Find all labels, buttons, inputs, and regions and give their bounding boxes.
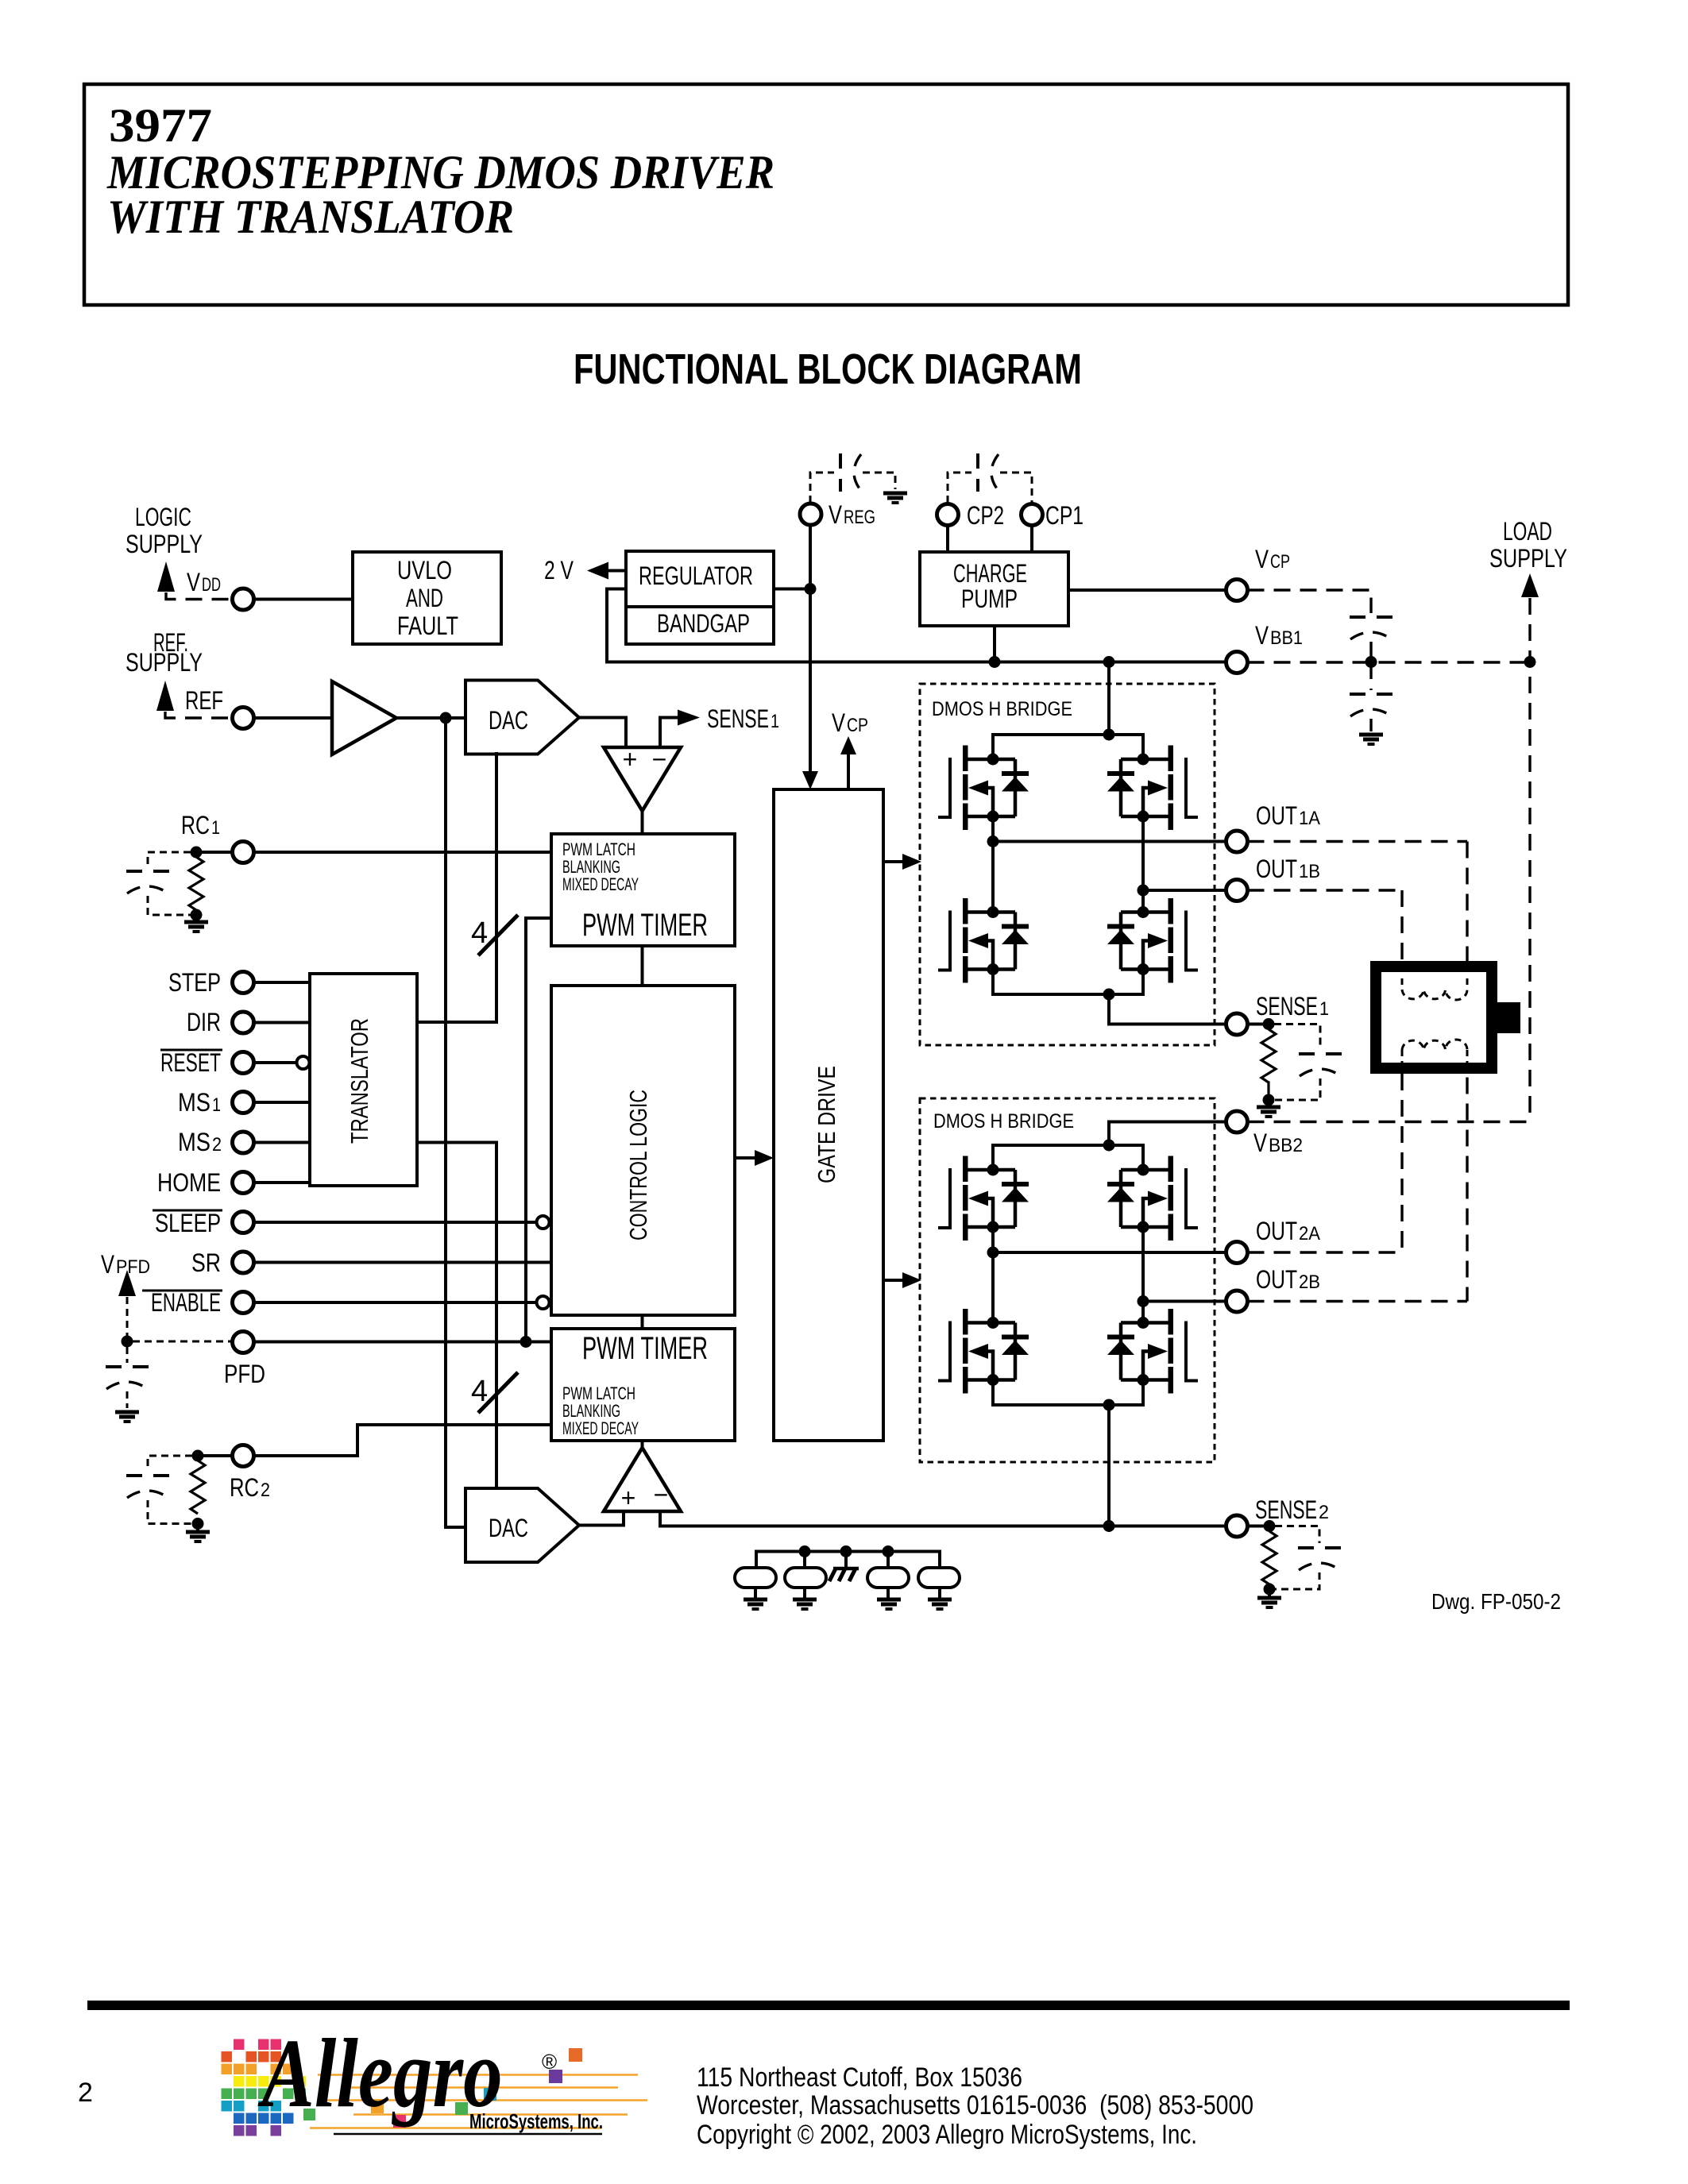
translator output bus 1 xyxy=(417,754,496,1022)
svg-text:PFD: PFD xyxy=(224,1360,265,1388)
wire dashed load supply vertical xyxy=(1528,598,1531,1122)
resistor R-SENSE1 xyxy=(1261,1029,1276,1082)
wire ENABLE to control logic xyxy=(254,1301,536,1304)
svg-text:V: V xyxy=(1253,1129,1268,1157)
svg-text:MS: MS xyxy=(178,1128,211,1156)
wire gate drive to bridge 1 arrow xyxy=(883,860,903,863)
capacitor C-SENSE1 xyxy=(1299,1054,1342,1076)
svg-text:UVLO: UVLO xyxy=(397,556,452,585)
svg-text:Worcester, Massachusetts 01615: Worcester, Massachusetts 01615-0036 (508… xyxy=(697,2090,1253,2120)
node VBB1 load junction xyxy=(1524,656,1536,668)
wire OUT1A rail xyxy=(993,840,1226,843)
svg-text:LOGIC: LOGIC xyxy=(135,503,191,531)
wire VDD to UVLO xyxy=(254,598,353,601)
capacitor pad 3 xyxy=(867,1568,909,1588)
svg-text:GATE DRIVE: GATE DRIVE xyxy=(813,1066,840,1183)
terminal VDD xyxy=(233,588,254,610)
wire charge pump bottom to VBB rail xyxy=(993,626,996,662)
svg-text:2: 2 xyxy=(1319,1502,1329,1523)
motor M1 stepper xyxy=(1376,967,1492,1068)
wire dashed REF supply xyxy=(165,712,233,718)
terminal RC2 xyxy=(233,1445,254,1467)
wire VBB tap into bridge 1 xyxy=(1107,662,1111,735)
svg-text:PWM TIMER: PWM TIMER xyxy=(582,1331,708,1366)
ground VREG cap xyxy=(883,493,907,503)
ground RC1 xyxy=(195,915,198,920)
svg-text:MIXED DECAY: MIXED DECAY xyxy=(562,874,639,894)
block DMOS H BRIDGE 1 dashed box xyxy=(920,684,1215,1045)
wire comparator output to PWM timer 1 xyxy=(641,811,644,834)
terminal VREG xyxy=(800,504,821,525)
svg-text:RC: RC xyxy=(181,811,210,839)
sense2 RC network xyxy=(1264,1520,1276,1532)
wire PWM timer 1 to control logic xyxy=(641,946,644,986)
wire OUT2A rail xyxy=(993,1251,1226,1254)
svg-text:RESET: RESET xyxy=(160,1048,221,1077)
svg-text:DAC: DAC xyxy=(489,706,528,735)
wire bridge1 bottom rail xyxy=(993,993,1143,996)
svg-text:PUMP: PUMP xyxy=(961,585,1018,613)
wire OUT2B rail xyxy=(1143,1300,1226,1303)
svg-text:V: V xyxy=(832,708,846,737)
terminal VCP xyxy=(1226,580,1248,601)
svg-text:BANDGAP: BANDGAP xyxy=(657,609,750,638)
wire charge pump to VCP xyxy=(1068,588,1226,592)
wire RC1 to PWM timer 1 xyxy=(254,851,552,854)
svg-text:CONTROL LOGIC: CONTROL LOGIC xyxy=(624,1090,652,1241)
svg-text:MIXED DECAY: MIXED DECAY xyxy=(562,1418,639,1438)
wire DAC1 output to comparator xyxy=(579,718,626,746)
svg-text:PWM TIMER: PWM TIMER xyxy=(582,908,708,943)
svg-text:MS: MS xyxy=(178,1088,211,1117)
wire HOME xyxy=(254,1181,311,1184)
node regulator-VREG junction xyxy=(805,583,817,595)
wire bridge1 right leg xyxy=(1141,816,1145,913)
svg-text:SENSE: SENSE xyxy=(707,704,769,733)
translator output bus 2 xyxy=(417,1143,496,1488)
logo MicroSystems Inc xyxy=(334,2133,602,2136)
wire dashed CP pump cap xyxy=(948,473,971,503)
motor winding phase 2 xyxy=(1402,1040,1467,1050)
wire OUT1B rail xyxy=(1143,889,1226,892)
terminal OUT1A xyxy=(1226,831,1248,852)
svg-text:Allegro: Allegro xyxy=(257,2020,502,2128)
wire regulator output to VREG xyxy=(774,588,810,591)
wire amp output to DAC1 xyxy=(396,716,465,720)
svg-text:SLEEP: SLEEP xyxy=(155,1209,221,1237)
op-amp A1 reference buffer xyxy=(332,681,396,754)
transistor Q8 bridge2 lower-right xyxy=(1107,1309,1198,1394)
node VPFD junction xyxy=(122,1336,133,1348)
terminal REF xyxy=(233,708,254,729)
ground SENSE2 xyxy=(1268,1589,1271,1595)
svg-text:LOAD: LOAD xyxy=(1503,517,1552,546)
wire PFD to PWM timer 2 xyxy=(254,1341,552,1344)
svg-text:1: 1 xyxy=(211,817,220,839)
terminal PFD xyxy=(233,1332,254,1353)
terminal VBB2 xyxy=(1226,1111,1248,1133)
transistor Q3 bridge1 lower-left xyxy=(938,898,1029,983)
wire dashed VREG external cap xyxy=(810,473,834,503)
wire dashed VCP to cap xyxy=(1248,590,1372,613)
wire bridge2 lower sources xyxy=(991,1380,995,1406)
wire bridge1 left leg xyxy=(991,816,995,913)
svg-text:OUT: OUT xyxy=(1256,1217,1297,1245)
block DMOS H BRIDGE 2 dashed box xyxy=(920,1098,1215,1462)
transistor Q5 bridge2 upper-left xyxy=(938,1156,1029,1241)
logic supply arrow xyxy=(157,561,175,592)
svg-text:+: + xyxy=(623,745,638,774)
svg-text:V: V xyxy=(1255,545,1269,573)
svg-text:SENSE: SENSE xyxy=(1256,992,1318,1021)
logo scattered squares xyxy=(569,2048,582,2062)
wire dashed OUT2B to motor xyxy=(1248,1300,1468,1302)
svg-text:2 V: 2 V xyxy=(544,556,574,585)
wire bridge1 lower sources xyxy=(991,970,995,995)
wire CP2 lead xyxy=(946,526,949,553)
node RESET inverter bubble xyxy=(297,1056,310,1069)
svg-text:ENABLE: ENABLE xyxy=(151,1288,221,1317)
wire comparator 2 minus input from SENSE2 rail xyxy=(660,1511,1226,1526)
svg-text:OUT: OUT xyxy=(1256,855,1297,883)
svg-text:CHARGE: CHARGE xyxy=(953,559,1027,588)
motor winding phase 1 xyxy=(1401,978,1404,990)
ground SENSE1 xyxy=(1267,1100,1270,1104)
wire bridge2 sense lead xyxy=(1107,1405,1111,1526)
resistor R2 xyxy=(191,1461,205,1514)
capacitor C-VCP xyxy=(1350,617,1393,639)
wire bridge1 sense lead xyxy=(1109,994,1226,1024)
node VBB1 cap junction xyxy=(1365,656,1377,668)
comparator CMP1 xyxy=(604,747,681,811)
node RC2 junction xyxy=(192,1450,204,1462)
wire SR to control logic xyxy=(254,1261,552,1264)
svg-text:AND: AND xyxy=(406,584,443,612)
wire bandgap feedback loop to VBB rail xyxy=(607,589,626,662)
dac U3 DAC2 pentagon xyxy=(465,1488,579,1562)
wire bridge2 bottom rail xyxy=(993,1403,1143,1406)
svg-text:HOME: HOME xyxy=(157,1168,221,1197)
block PWM TIMER 2 xyxy=(551,1329,735,1441)
svg-text:DAC: DAC xyxy=(489,1514,528,1542)
terminal VBB1 xyxy=(1226,652,1248,673)
block BANDGAP xyxy=(626,607,774,644)
wire dashed VPFD xyxy=(126,1297,129,1341)
svg-text:V: V xyxy=(187,568,201,596)
terminal CP2 xyxy=(937,504,959,526)
wire VREG vertical into gate drive xyxy=(809,525,812,774)
svg-text:DIR: DIR xyxy=(187,1008,221,1036)
svg-text:2A: 2A xyxy=(1299,1223,1320,1244)
svg-text:1B: 1B xyxy=(1299,861,1320,882)
wire dashed sense2 cap xyxy=(1275,1526,1319,1544)
node SENSE1 feed arrow xyxy=(678,710,700,726)
svg-text:1: 1 xyxy=(771,711,779,732)
dac U2 DAC pentagon xyxy=(465,681,579,754)
wire dashed OUT2A to motor xyxy=(1248,1251,1403,1253)
svg-text:REF: REF xyxy=(185,686,223,715)
node RC1 junction xyxy=(191,847,203,859)
terminal OUT2A xyxy=(1226,1242,1248,1264)
footer rule xyxy=(87,2001,1570,2010)
svg-text:3977: 3977 xyxy=(109,99,212,152)
block CHARGE PUMP xyxy=(920,552,1068,626)
svg-text:PFD: PFD xyxy=(116,1256,150,1278)
wire main VBB1 rail xyxy=(607,661,1226,664)
svg-text:Dwg. FP-050-2: Dwg. FP-050-2 xyxy=(1431,1589,1561,1614)
svg-text:1: 1 xyxy=(1319,998,1329,1020)
wire dashed OUT1A to motor xyxy=(1248,840,1468,843)
svg-text:DMOS H BRIDGE: DMOS H BRIDGE xyxy=(933,1110,1074,1133)
svg-text:BB2: BB2 xyxy=(1269,1135,1303,1156)
svg-text:V: V xyxy=(1255,621,1269,650)
block REGULATOR xyxy=(626,551,774,607)
svg-text:Copyright © 2002, 2003 Allegro: Copyright © 2002, 2003 Allegro MicroSyst… xyxy=(697,2120,1197,2150)
node RC1 bottom junction xyxy=(191,909,203,921)
svg-text:4: 4 xyxy=(471,1375,488,1408)
svg-text:SR: SR xyxy=(191,1248,221,1277)
capacitor C2 xyxy=(126,1476,169,1498)
wire bridge2 drain leads xyxy=(991,1145,995,1170)
svg-text:TRANSLATOR: TRANSLATOR xyxy=(346,1018,373,1144)
svg-text:OUT: OUT xyxy=(1256,801,1297,830)
wire bridge2 right leg xyxy=(1141,1227,1145,1323)
wire control logic to gate drive arrow xyxy=(735,1156,756,1160)
svg-text:REGULATOR: REGULATOR xyxy=(639,561,753,590)
svg-text:SUPPLY: SUPPLY xyxy=(1489,544,1567,573)
svg-text:−: − xyxy=(652,745,667,774)
wire DIR xyxy=(254,1021,311,1024)
block PWM TIMER 1 xyxy=(551,834,735,946)
transistor Q2 bridge1 upper-right xyxy=(1107,746,1198,831)
load supply arrow xyxy=(1521,573,1539,597)
svg-text:4: 4 xyxy=(471,916,488,950)
node SLEEP inverter bubble xyxy=(537,1216,550,1229)
svg-text:SUPPLY: SUPPLY xyxy=(126,648,203,677)
wire dashed RC2 cap branch xyxy=(148,1456,192,1471)
capacitor C-VREG xyxy=(840,453,861,492)
wire STEP xyxy=(254,981,311,984)
wire RC2 to PWM timer 2 xyxy=(254,1425,552,1456)
block GATE DRIVE xyxy=(774,789,883,1441)
svg-text:DMOS H BRIDGE: DMOS H BRIDGE xyxy=(932,698,1072,720)
ground VPFD cap xyxy=(115,1412,139,1422)
wire MS2 xyxy=(254,1141,311,1144)
svg-text:−: − xyxy=(654,1480,669,1509)
node PFD junction to PWM timers xyxy=(520,1336,532,1348)
wire RESET xyxy=(254,1061,297,1064)
svg-text:CP2: CP2 xyxy=(967,501,1004,530)
wire dashed VDD supply xyxy=(166,592,232,600)
svg-text:2: 2 xyxy=(261,1480,270,1501)
svg-text:V: V xyxy=(829,500,843,529)
svg-text:CP: CP xyxy=(847,715,868,736)
node amp output junction xyxy=(440,712,452,724)
capacitor C-SENSE2 xyxy=(1298,1548,1341,1570)
Allegro MicroSystems logo xyxy=(222,2039,307,2136)
wire dashed sense1 cap xyxy=(1274,1024,1320,1050)
resistor R-SENSE2 xyxy=(1262,1531,1277,1584)
terminal CP1 xyxy=(1022,504,1043,526)
svg-text:1: 1 xyxy=(212,1094,221,1116)
wire SLEEP to control logic xyxy=(254,1221,536,1224)
wire MS1 xyxy=(254,1101,311,1104)
wire gate drive to bridge 2 arrow xyxy=(883,1279,903,1282)
svg-text:STEP: STEP xyxy=(168,968,221,997)
wire bridge 2 top rail and VBB2 tap xyxy=(1109,1122,1226,1146)
resistor R1 xyxy=(189,857,203,910)
wire control logic to PWM timer 2 xyxy=(641,1315,644,1329)
svg-text:BB1: BB1 xyxy=(1270,627,1303,649)
node RC2 bottom junction xyxy=(192,1518,204,1530)
wire bridge 1 top rail xyxy=(993,733,1143,736)
capacitor pad 4 xyxy=(918,1568,960,1588)
wire dashed RC1 cap branch xyxy=(148,852,191,866)
transistor Q4 bridge1 lower-right xyxy=(1107,898,1198,983)
ground VBB1 cap xyxy=(1359,735,1383,744)
terminal OUT1B xyxy=(1226,880,1248,901)
chassis ground hatch xyxy=(833,1567,859,1571)
wire CP1 lead xyxy=(1030,526,1033,553)
svg-text:REG: REG xyxy=(844,507,875,528)
terminal OUT2B xyxy=(1226,1291,1248,1312)
comparator CMP2 xyxy=(604,1448,681,1511)
logo orange speed lines xyxy=(310,2075,647,2128)
block CONTROL LOGIC xyxy=(551,986,735,1315)
svg-text:115 Northeast Cutoff, Box 1503: 115 Northeast Cutoff, Box 15036 xyxy=(697,2062,1022,2093)
svg-text:+: + xyxy=(621,1484,636,1512)
terminal SENSE1 xyxy=(1226,1013,1248,1035)
svg-text:FAULT: FAULT xyxy=(397,612,458,640)
node ENABLE inverter bubble xyxy=(537,1296,550,1309)
wire comparator minus input from SENSE1 xyxy=(660,718,676,746)
capacitor C-VBB1 xyxy=(1369,662,1372,690)
svg-text:SENSE: SENSE xyxy=(1255,1495,1317,1524)
transistor Q6 bridge2 upper-right xyxy=(1107,1156,1198,1241)
svg-text:MicroSystems, Inc.: MicroSystems, Inc. xyxy=(469,2109,603,2133)
wire dashed OUT1B to motor xyxy=(1248,889,1403,891)
terminal SENSE2 xyxy=(1226,1515,1248,1537)
svg-text:2: 2 xyxy=(212,1134,222,1156)
svg-text:WITH TRANSLATOR: WITH TRANSLATOR xyxy=(107,191,514,243)
svg-text:CP1: CP1 xyxy=(1045,501,1083,530)
wire bridge1 drain leads xyxy=(991,735,995,759)
capacitor C1 xyxy=(126,871,169,893)
svg-text:2: 2 xyxy=(78,2078,93,2108)
svg-text:RC: RC xyxy=(230,1473,259,1502)
wire dashed VBB1 to load supply xyxy=(1248,661,1531,663)
wire REF to amplifier xyxy=(254,716,333,720)
block TRANSLATOR xyxy=(310,974,417,1186)
bus slash 1 xyxy=(478,915,518,955)
svg-text:DD: DD xyxy=(202,574,221,596)
VPFD arrow xyxy=(118,1270,136,1296)
title block frame xyxy=(84,84,1568,305)
bypass capacitor cluster bus xyxy=(756,1552,940,1569)
block UVLO AND FAULT U1 xyxy=(353,552,501,644)
svg-text:CP: CP xyxy=(1270,551,1290,573)
svg-text:FUNCTIONAL BLOCK DIAGRAM: FUNCTIONAL BLOCK DIAGRAM xyxy=(574,345,1082,393)
transistor Q1 bridge1 upper-left xyxy=(938,746,1029,831)
transistor Q7 bridge2 lower-left xyxy=(938,1309,1029,1394)
wire bridge2 left leg xyxy=(991,1227,995,1323)
svg-text:2B: 2B xyxy=(1299,1271,1320,1293)
ground RC2 xyxy=(196,1524,199,1530)
capacitor pad 1 xyxy=(735,1568,776,1588)
svg-text:SUPPLY: SUPPLY xyxy=(126,530,203,558)
ref supply arrow xyxy=(156,681,174,711)
capacitor C-CP xyxy=(978,453,999,492)
svg-text:V: V xyxy=(101,1250,115,1279)
wire PWM timer 2 to comparator 2 xyxy=(641,1441,644,1449)
sense1 RC network xyxy=(1263,1018,1275,1030)
wire DAC2 output to comparator 2 plus input xyxy=(579,1511,624,1526)
wire reference bus vertical to DAC2 xyxy=(446,718,465,1527)
wire PWM timer shared input vertical xyxy=(526,918,551,1342)
capacitor pad 2 xyxy=(785,1568,826,1588)
capacitor C-PFD xyxy=(126,1347,129,1363)
svg-text:OUT: OUT xyxy=(1256,1265,1297,1294)
wire dashed VBB2 to load supply xyxy=(1248,1121,1531,1123)
bus slash 2 xyxy=(478,1372,518,1413)
svg-text:®: ® xyxy=(542,2050,557,2074)
svg-text:1A: 1A xyxy=(1299,808,1320,829)
